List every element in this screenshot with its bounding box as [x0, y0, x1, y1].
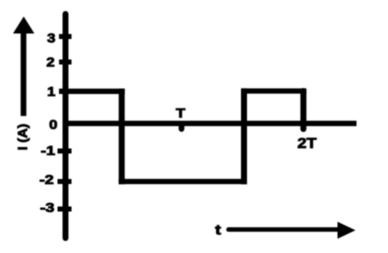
svg-text:3: 3 [47, 30, 56, 45]
svg-text:0: 0 [49, 117, 58, 132]
I axis direction arrow shaft [21, 32, 27, 116]
t axis arrowhead [338, 222, 356, 239]
svg-text:2: 2 [46, 55, 55, 70]
square wave: level -2 segment [119, 179, 247, 184]
tick +2 [59, 60, 72, 65]
square wave: level +1 segment 1 [59, 89, 125, 94]
square wave: falling edge at 2T (extends below axis) [300, 91, 306, 129]
svg-text:1: 1 [47, 84, 56, 99]
horizontal axis (time axis at 0) [63, 121, 357, 126]
tick -2 [58, 179, 72, 184]
svg-text:T: T [176, 106, 186, 121]
tick +3 [59, 34, 72, 39]
tick -1 [58, 149, 72, 154]
svg-text:-1: -1 [41, 144, 55, 158]
tick -3 [58, 207, 72, 212]
svg-text:-2: -2 [39, 174, 53, 188]
svg-text:2T: 2T [297, 136, 317, 152]
tick T below axis [179, 124, 185, 129]
svg-text:I (A): I (A) [15, 124, 30, 151]
t axis arrow shaft [229, 227, 340, 232]
svg-text:t: t [215, 223, 222, 238]
square wave: falling edge at 0.5T [119, 89, 125, 185]
square wave: rising edge at 1.5T [241, 88, 247, 184]
I axis direction arrowhead [13, 17, 34, 34]
square wave: level +1 segment 2 [241, 88, 306, 93]
vertical axis (current axis) [63, 14, 69, 238]
svg-text:-3: -3 [40, 201, 54, 215]
